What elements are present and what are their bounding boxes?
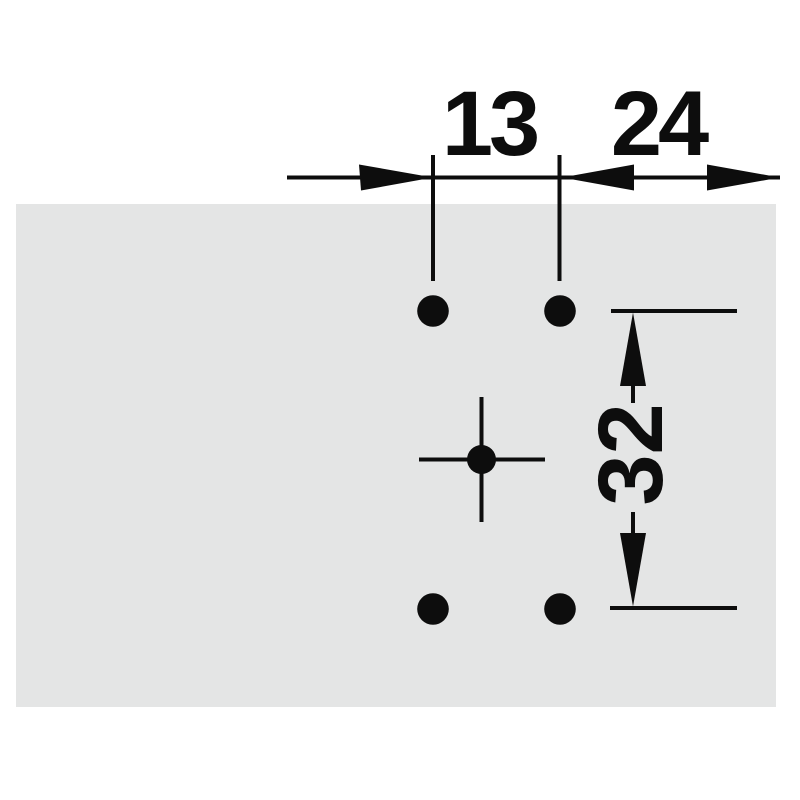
hole bottom-right: [544, 593, 576, 625]
svg-text:32: 32: [580, 403, 682, 505]
cross centerline horizontal: [419, 458, 545, 462]
cross center dot: [467, 445, 496, 474]
reference line top (y=311): [611, 309, 737, 313]
arrowhead pointing left at tick 560: [562, 165, 634, 191]
arrowhead pointing right at line end 780: [707, 165, 780, 191]
hole bottom-left: [417, 593, 449, 625]
reference line bottom (y=608): [610, 606, 737, 610]
extension line left (x=433): [431, 155, 435, 281]
extension line right (x=559.5): [558, 155, 562, 281]
dimension stem lower: [631, 512, 635, 534]
hole top-left: [417, 295, 449, 327]
arrowhead pointing up at (633,311): [620, 313, 646, 387]
svg-text:13: 13: [442, 73, 537, 175]
cross centerline vertical: [480, 397, 484, 522]
dimension stem upper: [631, 384, 635, 403]
arrowhead pointing right at tick 433: [359, 165, 433, 191]
arrowhead pointing down at (633,605): [620, 533, 646, 607]
hole top-right: [544, 295, 576, 327]
dimension line (top, horizontal): [287, 176, 780, 180]
panel (wood board face): [16, 204, 776, 707]
svg-text:24: 24: [611, 73, 709, 175]
